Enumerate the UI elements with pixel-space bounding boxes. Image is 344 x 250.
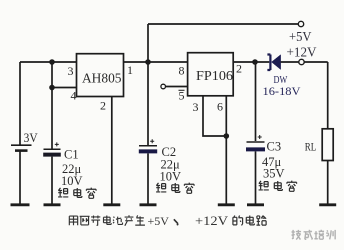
ground (C2) <box>140 203 157 206</box>
svg-text:8: 8 <box>179 64 185 78</box>
IC U1 AH805 box <box>77 54 124 97</box>
svg-text:3V: 3V <box>24 130 39 145</box>
svg-text:16-18V: 16-18V <box>263 86 302 98</box>
svg-text:10V: 10V <box>160 170 182 184</box>
watermark ji cheng pei xun <box>292 230 336 240</box>
wire: FP106 pin 3 down and right <box>203 96 226 136</box>
svg-text:+5V: +5V <box>148 214 170 228</box>
wire: C1 to ground <box>51 157 53 204</box>
wire: RL to ground <box>327 161 329 204</box>
wire: battery vertical from top rail down to battery plate <box>19 62 21 145</box>
svg-text:6: 6 <box>217 100 223 114</box>
caption ideographic comma <box>174 219 178 225</box>
svg-text:3: 3 <box>193 100 199 114</box>
ground (RL) <box>319 203 336 206</box>
svg-text:C3: C3 <box>267 140 282 154</box>
label tantalum (C3) <box>259 181 297 192</box>
caption: de dian lu <box>233 215 266 225</box>
wire: AH805 pin 2 down to ground <box>111 97 113 204</box>
wire: battery negative to ground <box>19 152 21 204</box>
label tantalum (C1) <box>58 188 96 199</box>
ground (FP106 pin 6) <box>218 203 235 206</box>
wire: FP106 pin 2 to diode <box>233 61 269 63</box>
svg-text:AH805: AH805 <box>82 71 122 86</box>
wire: node down to C2 <box>147 62 149 145</box>
caption: use two batteries to generate +5V +12V circuit <box>69 215 145 226</box>
node dot: pin2/C3 junction <box>252 59 258 65</box>
wire: C3 to ground <box>255 151 257 203</box>
svg-text:+12V: +12V <box>195 214 228 228</box>
wire: battery positive top horizontal to pin 3 <box>20 61 77 63</box>
wire: +5V top rail <box>148 23 298 25</box>
battery BT1 3V symbol <box>11 145 32 150</box>
capacitor C2 (polarized) <box>139 139 157 151</box>
node dot: pin 4 junction <box>49 85 55 91</box>
wire: C2 to ground <box>147 153 149 203</box>
node dot: battery/pin3/C1 junction <box>49 59 55 65</box>
svg-text:2: 2 <box>236 62 242 76</box>
svg-text:RL: RL <box>305 140 317 154</box>
wire: pin 5 terminal to box <box>166 86 188 88</box>
svg-text:1: 1 <box>127 63 133 77</box>
ground (C3) <box>247 203 264 206</box>
pin label 5 (with overline) <box>179 89 185 103</box>
ground (C1) <box>44 203 61 206</box>
svg-text:C1: C1 <box>64 148 79 162</box>
svg-text:DW: DW <box>274 74 288 86</box>
svg-text:2: 2 <box>100 99 106 113</box>
wire: pin 4 horizontal <box>52 87 77 89</box>
zener diode DW <box>267 55 280 71</box>
wire: junction vertical down through pin4 node to C1 <box>51 62 53 149</box>
wire: down to RL <box>327 62 329 129</box>
node dot: +5V / C2 junction <box>145 59 151 65</box>
svg-text:+12V: +12V <box>287 45 317 60</box>
capacitor C1 (polarized) <box>43 142 61 154</box>
wire: diode to +12V corner <box>281 61 328 63</box>
IC U2 FP106 box <box>188 53 234 96</box>
ground (battery) <box>11 203 30 206</box>
wire: node up to +5V rail <box>147 24 149 62</box>
terminal circle +12V <box>299 59 304 64</box>
wire: pin 1 to FP106 pin 8 <box>124 61 188 63</box>
svg-text:3: 3 <box>68 64 74 78</box>
svg-text:+5V: +5V <box>289 29 312 44</box>
capacitor C3 (polarized) <box>246 135 265 149</box>
terminal circle +5V <box>298 21 303 26</box>
svg-text:10V: 10V <box>61 174 83 188</box>
ground (AH805 pin 2) <box>103 203 120 206</box>
wire: FP106 pin 6 down to ground <box>225 96 227 204</box>
resistor RL <box>322 129 333 161</box>
node dot: pin3/pin6 junction <box>224 133 230 139</box>
svg-text:4: 4 <box>71 89 77 103</box>
terminal circle pin 5 <box>161 84 166 89</box>
wire: junction down to C3 <box>255 62 257 141</box>
svg-text:FP106: FP106 <box>196 68 233 83</box>
svg-text:35V: 35V <box>263 167 285 181</box>
label tantalum (C2) <box>156 183 194 194</box>
